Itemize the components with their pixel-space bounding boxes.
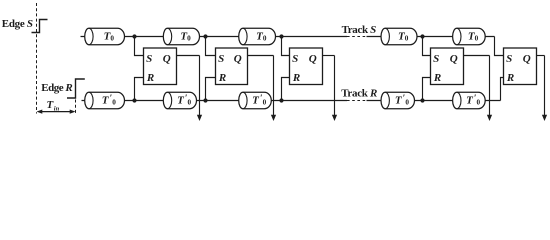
wire: S input drop to latch U4	[423, 37, 431, 56]
dashed time marker line for Edge R	[75, 100, 77, 114]
SR latch U1	[144, 48, 177, 85]
svg-text:R: R	[218, 72, 226, 84]
delay element T0 #1 on top rail	[85, 28, 125, 44]
wire: top rail dashed continuation under Track S label	[347, 36, 367, 38]
SR latch U2	[216, 48, 248, 85]
wire: Q output of latch U1 with output arrow	[177, 55, 200, 57]
delay element T'0 #1 on bottom rail	[85, 92, 125, 108]
svg-text:S: S	[218, 53, 224, 65]
node: top-rail junction 3	[279, 34, 283, 38]
delay element T'0 #3 on bottom rail	[239, 92, 272, 108]
svg-text:in: in	[54, 106, 60, 113]
svg-text:Q: Q	[163, 53, 171, 65]
svg-text:S: S	[292, 53, 298, 65]
delay element T0 #3 on top rail	[239, 28, 276, 44]
SR latch U4	[431, 48, 464, 85]
waveform: Edge S rising step	[32, 20, 48, 33]
svg-text:Edge R: Edge R	[41, 82, 72, 94]
svg-text:R: R	[433, 72, 441, 84]
SR latch U5	[504, 48, 537, 85]
svg-text:Track S: Track S	[342, 24, 377, 36]
delay element T0 #5 on top rail	[453, 28, 486, 44]
node: bottom-rail junction 4	[420, 98, 424, 102]
wire: R input riser to latch U3	[282, 78, 290, 101]
delay element T'0 #4 on bottom rail	[381, 92, 414, 108]
node: top-rail junction 4	[420, 34, 424, 38]
wire: bottom rail (Track R delay line)	[82, 100, 348, 102]
wire: Q output of latch U5 with output arrow	[537, 55, 545, 57]
wire: Q output of latch U2 with output arrow	[248, 55, 274, 57]
node: top-rail junction 1	[132, 34, 136, 38]
svg-text:S: S	[506, 53, 512, 65]
delay element T'0 #2 on bottom rail	[163, 92, 196, 108]
node: top-rail junction 2	[203, 34, 207, 38]
wire: R input riser to latch U1	[135, 78, 144, 101]
delay element T0 #2 on top rail	[163, 28, 199, 44]
wire: S input drop to latch U3	[282, 37, 290, 56]
svg-text:Edge S: Edge S	[2, 18, 33, 30]
wire: top rail corner down to S of latch U5	[495, 37, 504, 56]
svg-text:Q: Q	[309, 53, 317, 65]
svg-text:Track R: Track R	[341, 87, 377, 99]
wire: top rail (Track S delay line)	[81, 36, 348, 38]
dimension arrow T_in between edge markers	[40, 111, 74, 113]
wire: Q output of latch U4 with output arrow	[464, 55, 490, 57]
wire: S input drop to latch U1	[135, 37, 144, 56]
svg-text:S: S	[146, 53, 152, 65]
delay element T'0 #5 on bottom rail	[453, 92, 486, 108]
svg-text:R: R	[292, 72, 300, 84]
delay element T0 #4 on top rail	[381, 28, 417, 44]
SR latch U3	[290, 48, 323, 85]
svg-text:S: S	[433, 53, 439, 65]
node: bottom-rail junction 1	[132, 98, 136, 102]
wire: R input riser to latch U4	[423, 78, 431, 101]
node: bottom-rail junction 2	[203, 98, 207, 102]
wire: Q output of latch U3 with output arrow	[323, 55, 335, 57]
svg-text:Q: Q	[523, 53, 531, 65]
wire: bottom rail dashed continuation under Track R label	[347, 100, 367, 102]
svg-text:R: R	[506, 72, 514, 84]
svg-text:R: R	[146, 72, 154, 84]
waveform: Edge R rising step	[67, 79, 85, 98]
wire: R input riser to latch U2	[206, 78, 216, 101]
wire: bottom rail corner up to R of latch U5	[501, 78, 504, 101]
dashed time marker line for Edge S	[36, 3, 38, 114]
node: bottom-rail junction 3	[279, 98, 283, 102]
svg-text:Q: Q	[450, 53, 458, 65]
svg-text:Q: Q	[234, 53, 242, 65]
wire: S input drop to latch U2	[206, 37, 216, 56]
